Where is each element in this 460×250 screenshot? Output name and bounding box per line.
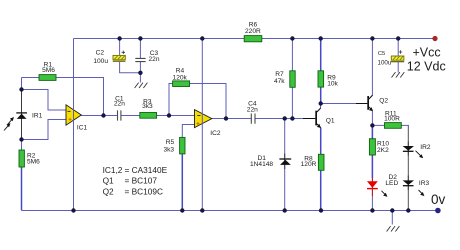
wire IC1 output to C1 [81, 115, 117, 117]
svg-text:5M6: 5M6 [27, 158, 40, 165]
wire Q2 emitter to node [371, 111, 373, 126]
resistor R5 3k3 [180, 137, 185, 154]
node IR1 cathode [19, 137, 23, 141]
resistor R4 120k [173, 81, 190, 87]
wire C2 bottom to C3 node [120, 62, 141, 73]
svg-text:10k: 10k [327, 81, 338, 88]
ground bottom rail [387, 226, 400, 231]
resistor R1 5M6 [39, 75, 56, 81]
LED IR2 infrared [403, 142, 424, 159]
wire R9 column [320, 39, 322, 104]
svg-text:Q1: Q1 [326, 118, 335, 125]
node bottom rail D1 [283, 208, 287, 212]
resistor R8 120R [318, 154, 324, 170]
ground below C3 [135, 83, 148, 88]
wire C3 top lead [139, 39, 141, 59]
node C2 C3 ground [138, 71, 142, 75]
ground below C5 [392, 72, 405, 77]
wire C2 top lead [119, 39, 121, 56]
wire bottom ground stub [391, 211, 393, 225]
wire IC2 output to C4 [212, 118, 252, 120]
svg-text:100u: 100u [93, 58, 108, 65]
svg-text:IC2: IC2 [210, 130, 221, 137]
svg-text:= BC107: = BC107 [125, 176, 158, 186]
node bottom rail IR3 [406, 208, 410, 212]
wire Q1 collector stub [320, 104, 322, 109]
node top rail R7 [290, 36, 294, 40]
node bottom rail D2 [370, 208, 374, 212]
wire R11 to IR2 corner [401, 124, 409, 126]
svg-text:2K2: 2K2 [377, 147, 389, 154]
svg-text:C5: C5 [378, 51, 385, 57]
terminal 0v [435, 208, 441, 214]
node top rail C5 [396, 36, 400, 40]
wire node to R11 [372, 124, 384, 126]
node top rail C3 [138, 36, 142, 40]
svg-text:C2: C2 [96, 49, 105, 56]
node bottom rail R5 [180, 208, 184, 212]
node D1 top [283, 116, 287, 120]
capacitor C1 22n [118, 110, 121, 120]
node IC1 output [101, 113, 105, 117]
svg-text:22n: 22n [247, 107, 258, 114]
wire D1 branch [284, 119, 286, 211]
wire IC1 inverting input [22, 90, 67, 111]
svg-text:IR2: IR2 [420, 144, 431, 151]
svg-text:3k3: 3k3 [163, 146, 174, 153]
wire R7 column [291, 39, 293, 119]
resistor R2 5M6 [19, 150, 24, 167]
wire top +V rail [74, 38, 436, 40]
svg-text:Q1: Q1 [103, 176, 114, 186]
svg-text:IR3: IR3 [419, 180, 430, 187]
diode D1 1N4148 [279, 154, 291, 170]
svg-text:220R: 220R [245, 28, 261, 35]
wire IC2 power vertical [201, 39, 203, 211]
node bottom rail IC2 [200, 208, 204, 212]
svg-text:22n: 22n [114, 100, 125, 107]
wire R1 right lead to output feedback [56, 78, 104, 116]
node top rail R9 [319, 36, 323, 40]
wire C4 to Q1 base [255, 118, 315, 120]
svg-text:Q2: Q2 [379, 98, 388, 105]
capacitor C5 100u electrolytic [391, 50, 404, 62]
op-amp IC1 [66, 105, 81, 125]
node bottom rail R8 [319, 208, 323, 212]
node bottom rail IC1 [71, 208, 75, 212]
LED D2 red [367, 178, 387, 197]
svg-text:3k3: 3k3 [142, 103, 153, 110]
resistor R7 47k [290, 71, 295, 88]
node IR1 anode [19, 87, 23, 91]
transistor Q1 BC107 [303, 108, 321, 128]
svg-text:Q2: Q2 [103, 186, 114, 196]
wire IC1 non-inverting input [22, 120, 67, 140]
wire C3 bottom to ground [139, 62, 141, 83]
wire Q1 collector node to Q2 base [321, 103, 368, 105]
node top rail IC2 [200, 36, 204, 40]
wire R9 bottom lead thick [320, 87, 322, 103]
capacitor C2 100u electrolytic [113, 51, 126, 62]
node IC2 inverting input [167, 113, 171, 117]
wire C5 bottom to ground [397, 62, 399, 73]
node R7 bottom [290, 116, 294, 120]
resistor R3 3k3 [140, 113, 157, 119]
svg-text:= CA3140E: = CA3140E [125, 165, 168, 175]
capacitor C4 22n [251, 114, 255, 124]
wire R9 top lead thick [320, 40, 322, 71]
wire R2 bottom lead thick [21, 167, 23, 210]
node IC2 output [224, 116, 228, 120]
LED IR3 infrared [403, 176, 425, 197]
wire R4 feedback branch left [169, 84, 173, 116]
resistor R6 220R [244, 36, 262, 42]
node top rail C2 [117, 36, 121, 40]
terminal +Vcc [432, 36, 437, 41]
svg-text:100R: 100R [384, 115, 400, 122]
node Q2 emitter [370, 123, 374, 127]
svg-text:22n: 22n [149, 56, 160, 63]
svg-text:100u: 100u [378, 60, 392, 67]
wire R10 D2 column [371, 125, 373, 210]
svg-text:R5: R5 [166, 139, 175, 146]
wire R10 top lead thick [371, 126, 373, 139]
svg-text:5M6: 5M6 [42, 67, 55, 74]
svg-text:IR1: IR1 [32, 113, 43, 120]
photodiode IR1 [4, 90, 27, 139]
op-amp IC2 [195, 110, 212, 128]
wire R1 left lead [22, 77, 40, 79]
wire left column IR1/R2 [21, 78, 23, 211]
wire bottom 0v rail [22, 210, 439, 212]
resistor R10 2K2 [369, 139, 375, 155]
wire R3 to IC2 inverting input [157, 115, 195, 117]
svg-text:IC1: IC1 [77, 124, 88, 131]
svg-text:1N4148: 1N4148 [250, 161, 273, 168]
svg-text:47k: 47k [274, 78, 285, 85]
wire IC1 power vertical [73, 39, 75, 211]
wire R5 to ground rail [181, 154, 183, 211]
svg-text:120R: 120R [301, 161, 317, 168]
wire R4 feedback branch right [190, 84, 227, 119]
svg-text:120k: 120k [173, 75, 188, 82]
wire IR2 IR3 column [407, 125, 409, 210]
svg-text:IC1,2: IC1,2 [103, 165, 123, 175]
node top rail Q2 [370, 36, 374, 40]
svg-text:+Vcc: +Vcc [413, 45, 441, 59]
wire R8 column thick [320, 128, 322, 211]
wire R5 bottom lead thick [181, 154, 183, 210]
wire C5 top lead [397, 39, 399, 57]
wire Q2 collector to top rail [371, 39, 373, 96]
svg-text:0v: 0v [431, 192, 446, 207]
resistor R9 10k [318, 71, 324, 87]
svg-text:12 Vdc: 12 Vdc [407, 60, 446, 74]
transistor Q2 BC109C [356, 95, 373, 111]
wire IC2 non-inverting input from R5 [182, 125, 194, 138]
svg-text:LED: LED [385, 180, 398, 187]
capacitor C3 22n [135, 58, 145, 61]
node bottom rail ground [390, 208, 394, 212]
resistor R11 100R [385, 123, 402, 129]
wire Q1 emitter to R8 to rail [320, 127, 322, 211]
wire C1 to R3 [121, 115, 140, 117]
svg-text:= BC109C: = BC109C [125, 186, 164, 196]
wire R10 bottom lead thick [371, 155, 373, 178]
node Q1 collector [319, 101, 323, 105]
